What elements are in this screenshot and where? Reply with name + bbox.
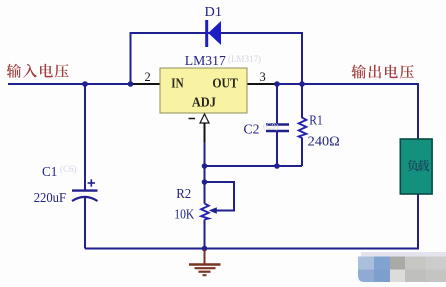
capacitor C2 xyxy=(266,125,289,132)
junction input/C1 xyxy=(82,81,88,87)
svg-text:D1: D1 xyxy=(205,5,223,20)
ground symbol xyxy=(189,250,221,276)
pin stub OUT (pin 3) xyxy=(247,83,276,85)
wire ADJ net xyxy=(205,141,303,204)
svg-text:R2: R2 xyxy=(176,186,191,201)
label input voltage xyxy=(7,64,21,78)
svg-text:3: 3 xyxy=(260,70,266,84)
junction output/C2 xyxy=(274,81,280,87)
junction ADJ node xyxy=(202,163,208,169)
svg-text:C2: C2 xyxy=(244,122,260,137)
load box (fuzai) xyxy=(400,139,432,194)
label output voltage xyxy=(352,65,366,79)
ADJ pin tick xyxy=(189,118,196,120)
pin stub IN (pin 2) xyxy=(132,83,160,85)
mosaic watermark xyxy=(358,252,446,282)
junction ADJ/C2 xyxy=(274,163,280,169)
junction output/R1 xyxy=(299,81,305,87)
svg-text:IN: IN xyxy=(171,77,183,92)
label fuzai xyxy=(407,160,418,172)
junction R2 tap xyxy=(202,179,208,185)
svg-text:220uF: 220uF xyxy=(34,190,67,205)
wire output net xyxy=(275,84,418,139)
resistor R2 zigzag xyxy=(201,204,209,220)
resistor R1 zigzag xyxy=(299,118,307,139)
svg-text:(C6): (C6) xyxy=(60,164,77,174)
wire R2 wiper loop xyxy=(205,182,235,211)
junction bottom/ground xyxy=(202,246,208,252)
wire R1 branch xyxy=(301,84,303,166)
svg-text:(LM317): (LM317) xyxy=(228,54,261,64)
wire input net xyxy=(8,83,135,85)
ADJ pin arrow xyxy=(200,114,209,123)
svg-text:LM317: LM317 xyxy=(185,54,226,69)
pin stub ADJ xyxy=(204,123,206,142)
svg-text:ADJ: ADJ xyxy=(192,96,216,111)
wire R2 bottom xyxy=(204,220,206,249)
R2 wiper arrowhead xyxy=(209,207,217,213)
junction input/top-loop xyxy=(128,81,134,87)
wire load to bottom rail xyxy=(85,194,418,249)
svg-text:240Ω: 240Ω xyxy=(308,133,340,148)
svg-text:2: 2 xyxy=(145,70,151,84)
svg-text:R1: R1 xyxy=(309,113,323,128)
wire C1 branch xyxy=(84,84,86,249)
capacitor C1 electrolytic xyxy=(72,179,98,201)
svg-text:OUT: OUT xyxy=(212,77,238,92)
wire top loop to diode xyxy=(131,33,303,85)
svg-text:10K: 10K xyxy=(174,207,194,222)
op-amp U1 LM317 body xyxy=(160,68,247,113)
svg-text:C1: C1 xyxy=(42,164,57,179)
diode D1 xyxy=(205,20,221,47)
svg-text:(C9): (C9) xyxy=(263,121,279,131)
wire C2 branch xyxy=(276,84,278,166)
